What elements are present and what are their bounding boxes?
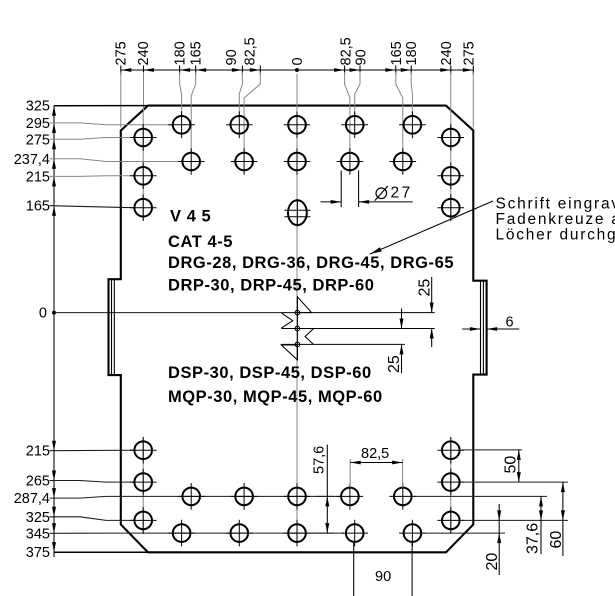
dim Ø27 <box>321 171 413 208</box>
hole at (297,124.8) <box>284 112 311 139</box>
svg-text:82,5: 82,5 <box>361 446 389 462</box>
svg-text:0: 0 <box>39 306 47 322</box>
svg-text:Löcher durchgebohrt: Löcher durchgebohrt <box>496 227 615 244</box>
hole at (143.2,207.7) <box>130 194 157 221</box>
svg-text:295: 295 <box>26 116 50 132</box>
hole at (143.2,520.4) <box>130 507 157 534</box>
dim 25 upper <box>417 277 434 347</box>
hole at (143.2,450.2) <box>130 437 157 464</box>
svg-text:90: 90 <box>354 49 370 65</box>
svg-text:82,5: 82,5 <box>243 37 259 65</box>
svg-text:25: 25 <box>417 279 434 297</box>
svg-text:165: 165 <box>26 199 50 215</box>
svg-text:165: 165 <box>188 41 204 65</box>
center keyline symbol <box>281 296 434 360</box>
svg-text:275: 275 <box>114 41 130 65</box>
svg-text:Fadenkreuze angerissen: Fadenkreuze angerissen <box>496 211 615 228</box>
hole at (402.8,496.4) <box>390 483 417 510</box>
svg-text:90: 90 <box>224 49 240 65</box>
hole at (354.7,124.8) <box>341 112 368 139</box>
hole at (239.3,533.1) <box>226 520 253 547</box>
annotation text right <box>496 196 615 244</box>
hole at (181.6,533.1) <box>168 520 195 547</box>
svg-text:165: 165 <box>389 41 405 65</box>
hole at (450.8,207.7) <box>438 194 465 221</box>
svg-text:V 4 5: V 4 5 <box>170 208 211 226</box>
hole at (349.9,161.5) <box>337 148 364 175</box>
dim 20 <box>420 504 505 575</box>
dim 90 bottom <box>354 543 412 596</box>
svg-text:240: 240 <box>136 41 152 65</box>
svg-text:27: 27 <box>391 185 413 202</box>
svg-text:325: 325 <box>26 99 50 115</box>
svg-text:180: 180 <box>404 41 420 65</box>
hole at (239.3,124.8) <box>226 112 253 139</box>
svg-text:215: 215 <box>26 444 50 460</box>
svg-text:90: 90 <box>375 569 391 585</box>
svg-text:180: 180 <box>172 41 188 65</box>
hole at (354.7,533.1) <box>341 520 368 547</box>
svg-text:25: 25 <box>386 355 403 373</box>
hole at (191.2,161.5) <box>178 148 205 175</box>
hole at (412.4,124.8) <box>399 112 426 139</box>
plate outline <box>109 106 487 553</box>
dim 60 right <box>462 482 568 556</box>
model text block <box>168 208 454 406</box>
svg-text:215: 215 <box>26 169 50 185</box>
hole at (143.2,175.8) <box>130 163 157 190</box>
column center lines <box>143 112 451 534</box>
hole at (244.1,496.4) <box>231 483 258 510</box>
holes top row 295 <box>130 112 464 547</box>
svg-text:237,4: 237,4 <box>14 152 50 168</box>
slot hole center <box>284 199 310 226</box>
hole at (349.9,496.4) <box>337 483 364 510</box>
svg-text:345: 345 <box>26 526 50 542</box>
svg-text:57,6: 57,6 <box>312 446 328 474</box>
svg-text:50: 50 <box>503 456 520 474</box>
hole at (297,496.4) <box>284 483 311 510</box>
hole at (143.2,482.1) <box>130 469 157 496</box>
left labels <box>14 99 50 561</box>
svg-text:37,6: 37,6 <box>525 523 542 554</box>
svg-text:275: 275 <box>461 41 477 65</box>
dim 82,5 bottom <box>350 446 402 488</box>
svg-text:325: 325 <box>26 510 50 526</box>
svg-text:DRP-30, DRP-45, DRP-60: DRP-30, DRP-45, DRP-60 <box>168 277 375 295</box>
top dimension line <box>121 66 474 75</box>
svg-text:6: 6 <box>506 315 514 331</box>
svg-text:287,4: 287,4 <box>14 491 50 507</box>
svg-text:DSP-30, DSP-45, DSP-60: DSP-30, DSP-45, DSP-60 <box>168 364 372 382</box>
hole at (412.4,533.1) <box>399 520 426 547</box>
left vertical dimension line <box>52 106 56 557</box>
svg-text:240: 240 <box>439 41 455 65</box>
svg-text:0: 0 <box>290 57 306 65</box>
dim 50 right <box>462 450 568 482</box>
top extension stems <box>121 72 474 540</box>
svg-text:60: 60 <box>548 531 565 549</box>
dim 37,6 <box>412 496 547 554</box>
hole at (450.8,137.5) <box>438 124 465 151</box>
hole at (450.8,175.8) <box>438 163 465 190</box>
svg-text:375: 375 <box>26 545 50 561</box>
left tab inner lines <box>111 280 113 375</box>
top dimension labels (rotated) <box>114 37 478 65</box>
hole at (181.6,124.8) <box>168 112 195 139</box>
hole at (450.8,520.4) <box>438 507 465 534</box>
dim 57,6 <box>311 445 334 534</box>
right tab inner lines <box>480 281 482 374</box>
svg-text:MQP-30, MQP-45, MQP-60: MQP-30, MQP-45, MQP-60 <box>168 388 383 406</box>
svg-text:275: 275 <box>26 132 50 148</box>
svg-text:265: 265 <box>26 474 50 490</box>
hole at (450.8,482.1) <box>438 469 465 496</box>
svg-text:82,5: 82,5 <box>338 37 354 65</box>
svg-text:Schrift eingraviert: Schrift eingraviert <box>496 196 615 213</box>
hole at (450.8,450.2) <box>438 437 465 464</box>
svg-text:DRG-28, DRG-36, DRG-45, DRG-65: DRG-28, DRG-36, DRG-45, DRG-65 <box>168 254 454 272</box>
svg-text:CAT 4-5: CAT 4-5 <box>168 233 233 251</box>
left leaders <box>50 106 345 553</box>
leader from annotation <box>370 201 493 254</box>
hole at (402.8,161.5) <box>390 148 417 175</box>
dim 25 lower <box>386 309 404 374</box>
hole at (244.1,161.5) <box>231 148 258 175</box>
svg-text:20: 20 <box>484 553 501 571</box>
hole at (143.2,137.5) <box>130 124 157 151</box>
dim 6 right tab <box>462 315 519 331</box>
hole at (191.2,496.4) <box>178 483 205 510</box>
hole at (297,533.1) <box>284 520 311 547</box>
hole at (297,161.5) <box>284 148 311 175</box>
